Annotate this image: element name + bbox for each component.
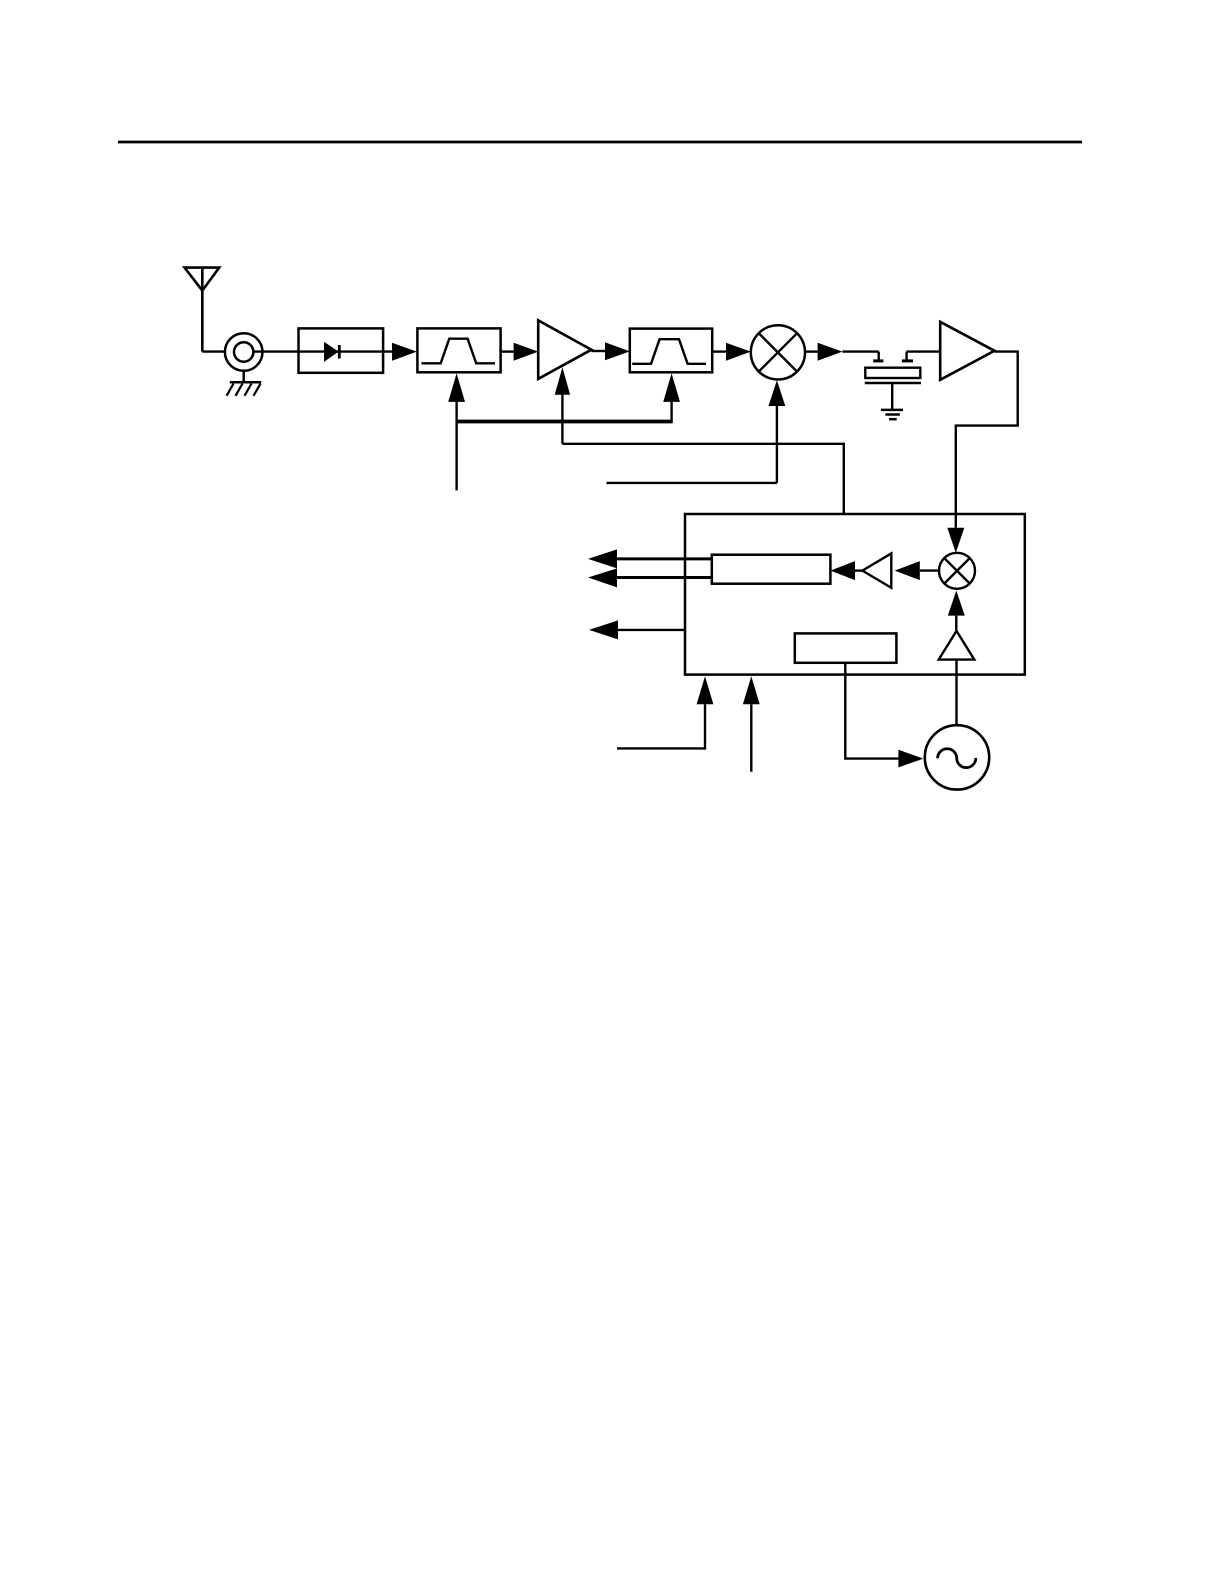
arrow into A1 [514, 343, 539, 361]
wire FL1 to A1 [501, 350, 514, 352]
arrow into FL1 [392, 343, 417, 361]
wire buffer to B1 [855, 569, 862, 571]
arrow up into MX2 from oscillator buffer [948, 591, 965, 631]
bandpass filter FL2 [630, 329, 712, 373]
amplifier A2 [940, 322, 994, 380]
output wire B with arrow [588, 568, 712, 587]
antenna ANT1 [185, 268, 220, 352]
wire AGC to A1 (arrow up) [555, 367, 570, 444]
wire control bus (thick) [457, 420, 672, 424]
wire buffer to oscillator [955, 660, 957, 726]
wire LO to MX1 (arrow up) [769, 380, 786, 483]
arrow into oscillator [898, 750, 923, 768]
wire MX2 to buffer [920, 569, 939, 571]
input wire D with arrow into box [617, 676, 713, 748]
wire LO input stub [607, 482, 777, 484]
connector J1 [225, 333, 263, 371]
wire to crystal filter [842, 350, 878, 352]
oscillator OSC1 [925, 725, 989, 789]
arrow into buffer [895, 561, 920, 580]
internal block B1 [712, 555, 831, 584]
PLL IC U1 (box) [685, 514, 1025, 675]
wire antenna to connector [202, 350, 225, 352]
buffer amplifier (left-pointing) [862, 553, 891, 587]
bandpass filter FL1 [417, 328, 500, 372]
mixer MX2 [939, 553, 975, 589]
wire FL2 to MX1 [712, 350, 726, 352]
crystal filter FL3 [865, 352, 921, 410]
mixer MX1 [751, 325, 805, 379]
wire B2 to oscillator [845, 663, 898, 759]
output wire A with arrow [588, 549, 712, 568]
arrow into FL2 [605, 342, 630, 360]
wire crystal filter to A2 [907, 350, 941, 352]
wire connector to limiter [253, 350, 298, 352]
wire MX1 output [805, 350, 818, 352]
wire through limiter [299, 350, 393, 352]
wire A1 to FL2 [591, 350, 605, 352]
internal block B2 [795, 633, 897, 662]
arrow into B1 [830, 561, 855, 580]
arrow down into MX2 [947, 528, 964, 553]
wire A1 control run to PLL box [562, 444, 843, 514]
limiter block (box) [299, 328, 384, 372]
input wire E with arrow into box [743, 676, 760, 772]
arrow on MX1 output [818, 343, 843, 361]
wire AGC to FL2 (arrow up) [663, 373, 680, 423]
ground under crystal filter [881, 410, 903, 419]
wire AGC to FL1 (arrow up) [448, 373, 465, 490]
output wire C with arrow [589, 620, 685, 639]
buffer amplifier (up-pointing) [939, 631, 975, 660]
amplifier A1 [538, 320, 591, 379]
ground (earth) under connector [227, 371, 262, 396]
wire A2 feedback to MX2 [956, 352, 1018, 528]
arrow into MX1 [726, 343, 751, 361]
diode D1 [324, 342, 339, 362]
